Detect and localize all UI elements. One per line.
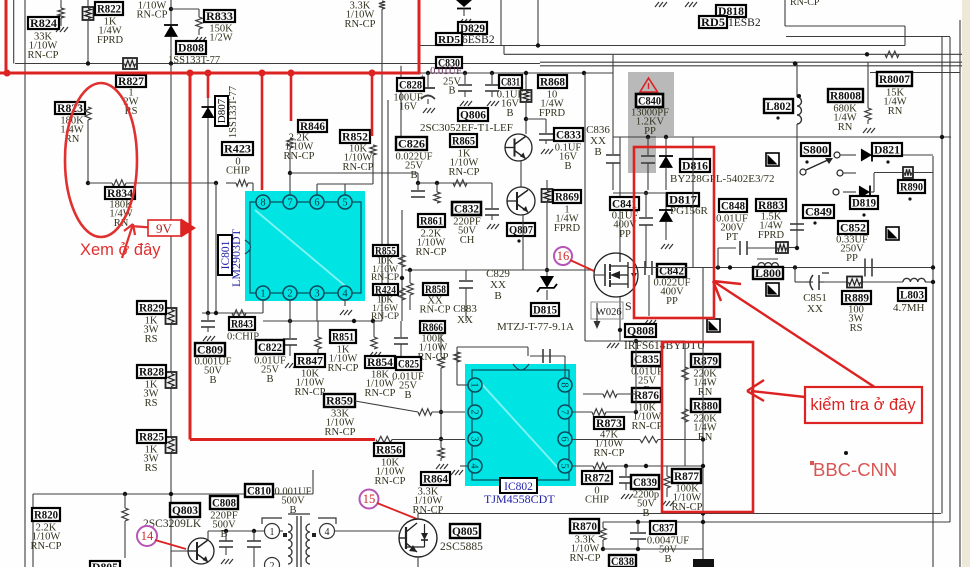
resistor R423 label box (222, 142, 253, 155)
wire pin5 right (572, 465, 593, 467)
wire vertical x171 mid (170, 64, 172, 567)
svg-text:R859: R859 (326, 396, 353, 408)
resistor R827 label box (116, 75, 146, 87)
RD5.6ESB2 label (436, 33, 462, 45)
resistor R820 symbol (124, 494, 126, 508)
svg-text:R877: R877 (674, 471, 699, 483)
svg-text:2: 2 (287, 289, 292, 300)
svg-text:RN-CP: RN-CP (790, 0, 820, 8)
resistor R846 label box (298, 120, 327, 132)
svg-text:CH: CH (460, 235, 475, 246)
svg-text:RD5: RD5 (438, 34, 461, 46)
junction x584 y73 (582, 71, 586, 75)
junction x646 y193 (644, 191, 648, 195)
red junction dot 6 (369, 70, 376, 77)
svg-text:C849: C849 (805, 207, 832, 219)
svg-text:B: B (209, 375, 216, 386)
svg-text:14: 14 (141, 529, 154, 543)
resistor R876 label box (632, 388, 661, 402)
svg-text:FPRD: FPRD (97, 35, 124, 46)
svg-text:2: 2 (468, 409, 479, 414)
svg-text:R823: R823 (57, 103, 83, 115)
svg-text:Q805: Q805 (452, 526, 478, 538)
svg-text:B: B (266, 374, 273, 385)
svg-text:D815: D815 (533, 305, 557, 317)
svg-text:RD5: RD5 (701, 17, 725, 29)
capacitor C809 label box (195, 343, 225, 356)
Q808 label box (625, 324, 656, 337)
IC802 pin 7 (558, 405, 572, 419)
inductor L803 label box (898, 288, 926, 301)
svg-text:RN: RN (888, 106, 903, 117)
svg-text:RN-CP: RN-CP (137, 10, 168, 21)
resistor R854 symbol (373, 321, 375, 337)
svg-text:CHIP: CHIP (226, 166, 250, 177)
junction x125 y494 (123, 492, 127, 496)
capacitor C838 label box (609, 555, 636, 567)
capacitor C809 symbol (207, 313, 209, 320)
wire vertical x14 (13, 0, 15, 64)
wire y26 top right (785, 25, 905, 27)
resistor R822 label box (95, 2, 123, 15)
wire bus y45 (420, 45, 905, 47)
svg-text:RN: RN (838, 122, 853, 133)
capacitor C831 label box (499, 75, 522, 88)
svg-text:C839: C839 (633, 477, 657, 489)
wire y173 (843, 172, 856, 174)
node on wire y9 (169, 7, 173, 11)
Q807 dot (517, 239, 520, 242)
switch contacts (834, 152, 840, 158)
junction x636 y341 (634, 339, 638, 343)
resistor R877 symbol (664, 476, 670, 488)
junction x547 y270 (545, 268, 549, 272)
red long vertical x190 (189, 73, 192, 440)
svg-text:R890: R890 (900, 182, 923, 194)
capacitor C851 symbol (810, 275, 813, 290)
wire top bus y66 right (540, 65, 962, 67)
diode D829 label box (458, 22, 487, 34)
resistor R824 label box (28, 17, 59, 29)
red drop x372 (371, 73, 374, 136)
resistor R847 label box (295, 354, 325, 367)
resistor above R861 (436, 183, 438, 192)
IC802 pin 3 (468, 432, 482, 446)
junction x933 y267 (931, 265, 935, 269)
svg-text:RN-CP: RN-CP (345, 19, 376, 30)
diode D807 (202, 107, 215, 118)
diode near D821 (861, 149, 872, 162)
diode D807 red stub handled later; black wire (207, 98, 209, 313)
IC802 pin 2 (468, 405, 482, 419)
switch S800 label box (801, 143, 830, 156)
svg-text:5: 5 (342, 198, 347, 209)
svg-text:R872: R872 (584, 473, 610, 485)
svg-text:R865: R865 (452, 136, 475, 148)
resistor R855 label box (373, 245, 398, 256)
svg-text:Q808: Q808 (627, 326, 654, 338)
svg-text:8: 8 (558, 382, 569, 387)
resistor R869 label box (553, 190, 581, 203)
S800 dot (805, 160, 808, 163)
svg-text:R864: R864 (423, 474, 448, 486)
svg-text:R8007: R8007 (879, 74, 910, 86)
capacitor C832 label box (452, 202, 481, 215)
transistor Q805 label box (450, 524, 480, 538)
capacitor C839 label box (631, 475, 659, 489)
wire pin7 up (289, 148, 291, 195)
svg-text:R876: R876 (634, 390, 659, 402)
svg-text:RN-CP: RN-CP (570, 553, 601, 564)
capacitor C822 label box (256, 340, 284, 354)
capacitor C825 symbol (400, 321, 402, 337)
C835 cap symbol wires (527, 347, 529, 356)
capacitor C842 label box (657, 264, 686, 277)
resistor R859 label box (324, 394, 355, 407)
resistor R861 label box (418, 214, 445, 227)
IC801 pin 6 (310, 195, 324, 209)
small black dot (844, 451, 848, 455)
red arrow to R834 (122, 224, 158, 258)
wire y172 right (874, 172, 903, 174)
half square marker 1 (766, 153, 779, 166)
Q803 base wire (171, 550, 188, 552)
junction x638 y522 (636, 520, 640, 524)
wire vertical x960 right edge (959, 20, 961, 567)
wire vertical x538 (537, 0, 539, 46)
resistor R858 label box (423, 283, 448, 295)
junction x88 y183 (86, 181, 90, 185)
svg-text:R870: R870 (572, 521, 597, 533)
svg-text:FPRD: FPRD (554, 223, 581, 234)
junction x418 y183 (416, 181, 420, 185)
D807 label box vertical (215, 96, 228, 126)
wire MOSFET gate (405, 269, 594, 271)
svg-text:RN-CP: RN-CP (295, 387, 326, 398)
resistor R827 symbol (123, 58, 137, 69)
junction x648 y137 (646, 135, 650, 139)
svg-text:R869: R869 (555, 192, 579, 204)
svg-text:R847: R847 (297, 356, 323, 368)
svg-text:1/2W: 1/2W (209, 33, 232, 44)
resistor on y54 bus (885, 51, 899, 57)
IC801 pin 2 (283, 286, 297, 300)
wire pin7 right (572, 411, 592, 413)
svg-text:0:CHIP: 0:CHIP (227, 331, 259, 342)
junction x646 y466 (644, 464, 648, 468)
inductor L802 (796, 62, 798, 97)
svg-text:RN-CP: RN-CP (416, 247, 447, 258)
wire R866 column (440, 333, 442, 357)
svg-text:RN-CP: RN-CP (343, 162, 374, 173)
red box 2 right of IC802 (662, 342, 753, 512)
resistor R854 label box (365, 356, 395, 368)
capacitor C852 symbol (864, 259, 866, 277)
wire vertical x905 (904, 26, 906, 46)
svg-text:C828: C828 (399, 80, 422, 92)
transformer pin 4 (320, 524, 335, 539)
wire vertical x382 (381, 9, 383, 321)
IC801 pin 1 (256, 286, 270, 300)
D816 label box (680, 159, 710, 172)
svg-text:L803: L803 (900, 290, 924, 302)
svg-text:FPRD: FPRD (539, 108, 566, 119)
svg-text:8: 8 (260, 198, 265, 209)
resistor R834 label box (105, 187, 135, 199)
svg-text:1: 1 (468, 382, 479, 387)
svg-text:R829: R829 (139, 303, 164, 315)
wire horizontal y522 bottom (603, 521, 950, 523)
circled 15 (360, 490, 379, 509)
svg-text:B: B (564, 161, 571, 172)
red horizontal y440 (190, 438, 375, 441)
resistor R864 symbol (438, 448, 444, 458)
diode lower (859, 186, 870, 199)
circled 16 (554, 247, 572, 265)
capacitor C849 label box (803, 205, 834, 218)
capacitor C828 (426, 71, 430, 75)
gray highlight region around C840 (628, 72, 674, 136)
red junction dot 4 (259, 70, 266, 77)
wire y494 (33, 493, 313, 495)
ground top right 1 (655, 2, 667, 7)
wire pin5 up (344, 184, 346, 195)
diode at top (456, 0, 472, 7)
wire y321 (263, 320, 382, 322)
svg-text:R827: R827 (118, 76, 144, 88)
svg-text:R824: R824 (30, 18, 57, 30)
resistor R866 label box (420, 321, 445, 333)
svg-text:16V: 16V (399, 102, 418, 113)
svg-text:RS: RS (145, 463, 158, 474)
red junction dot 5 (288, 70, 295, 77)
W026 marker (591, 302, 623, 319)
svg-text:C835: C835 (634, 354, 659, 366)
svg-text:R856: R856 (376, 445, 402, 457)
wire pin3 down (316, 300, 318, 321)
svg-text:CHIP: CHIP (585, 495, 609, 506)
resistor R856 label box (374, 443, 404, 456)
resistor near R855 (399, 255, 405, 267)
capacitor C808 label box (210, 496, 238, 509)
wire y183 right part (418, 182, 492, 184)
IC801 pin 7 (283, 195, 297, 209)
transistor Q806 (525, 73, 527, 90)
half square marker 3 (886, 227, 899, 240)
svg-text:16: 16 (557, 249, 570, 263)
wire top bus y62 right (540, 61, 962, 63)
wire switch top (840, 154, 856, 156)
svg-text:XX: XX (807, 303, 823, 315)
svg-text:RN-CP: RN-CP (284, 151, 315, 162)
svg-text:RN: RN (698, 432, 713, 443)
resistor to pin2 IC802 (418, 409, 432, 415)
svg-text:C831: C831 (501, 77, 520, 89)
svg-text:C840: C840 (638, 96, 661, 108)
wire y531 (208, 530, 264, 532)
red left arrow to box2 (747, 380, 805, 401)
svg-text:Xem ở đây: Xem ở đây (80, 241, 161, 259)
svg-text:7: 7 (558, 409, 569, 414)
resistor R868 label box (538, 75, 567, 88)
R890 dot (908, 197, 911, 200)
wire y341 (585, 340, 685, 342)
svg-text:R825: R825 (139, 432, 164, 444)
svg-text:Q807: Q807 (509, 225, 533, 237)
resistor R825 symbol (166, 437, 177, 453)
wire x401 (400, 66, 402, 137)
capacitor C810 label box (245, 484, 273, 497)
svg-text:7: 7 (287, 198, 292, 209)
red pointer from 16 (570, 260, 594, 271)
red box 1 around D816 D817 C842 (634, 147, 714, 318)
svg-text:S800: S800 (803, 145, 828, 157)
svg-text:R8008: R8008 (830, 91, 861, 103)
wire x703 long (702, 268, 704, 560)
svg-text:RN: RN (698, 387, 713, 398)
junction x171 y63 (169, 61, 173, 65)
svg-text:S: S (625, 299, 632, 313)
red drop x208 (207, 73, 210, 98)
resistor R825 label box (137, 430, 166, 443)
resistor R823 label box (55, 102, 85, 114)
svg-text:R423: R423 (224, 144, 251, 156)
D819 label box (850, 196, 878, 209)
capacitor C833 label box (554, 128, 583, 141)
svg-text:RN-CP: RN-CP (365, 388, 396, 399)
svg-text:RN-CP: RN-CP (325, 427, 356, 438)
diode D818 label box (716, 5, 746, 17)
capacitor C840 label box (636, 94, 663, 107)
svg-text:R879: R879 (693, 356, 718, 368)
resistor R828 label box (137, 365, 166, 378)
junction x626 y466 (624, 464, 628, 468)
resistor R864 label box (421, 472, 450, 485)
junction x666 y137 (664, 135, 668, 139)
svg-text:D805: D805 (92, 562, 118, 567)
wire vertical x501 (500, 0, 502, 46)
resistor R872 label box (582, 471, 612, 484)
svg-text:C833: C833 (556, 130, 581, 142)
red arrow head at C842 (713, 281, 876, 388)
svg-text:R852: R852 (342, 132, 368, 144)
small red square (810, 461, 814, 465)
red ellipse annotation (65, 83, 137, 237)
resistor R883 label box (756, 199, 786, 211)
resistor R424 label box (373, 284, 398, 295)
svg-text:R883: R883 (758, 200, 784, 212)
svg-text:6ESB2: 6ESB2 (462, 34, 495, 46)
wire y183 with R834 (88, 182, 112, 184)
junction x933 y282 (931, 280, 935, 284)
resistor R829 label box (137, 301, 166, 314)
D817 label box (667, 193, 699, 206)
wire vertical x693 (692, 137, 694, 267)
resistor R851 symbol (317, 321, 319, 337)
resistor R890 label box (898, 180, 925, 193)
capacitor C841 label box (610, 197, 639, 210)
svg-text:C852: C852 (840, 223, 866, 235)
9V callout box (148, 220, 181, 236)
scan edge strip right (962, 0, 970, 567)
IC802 pin 6 (558, 432, 572, 446)
capacitor C848 label box (719, 199, 747, 212)
wire Q807 emitter down (522, 215, 524, 270)
resistor R823 symbol on wire x88 (85, 107, 91, 120)
junction x795 y267 (793, 265, 797, 269)
svg-text:D807: D807 (216, 98, 228, 123)
resistor R820 label box (32, 508, 60, 521)
resistor R870 label box (570, 519, 599, 533)
capacitor near Q803 1 (219, 540, 233, 542)
transformer pin1 wire (280, 530, 283, 532)
junction pin7 wire y173 (288, 171, 292, 175)
red bus horizontal (0, 72, 419, 75)
capacitor at x492 (490, 71, 494, 75)
junction x867 y54 (865, 52, 869, 56)
capacitor below pin2 (283, 338, 297, 340)
svg-text:4: 4 (342, 289, 348, 300)
transformer core (296, 516, 298, 567)
resistor R851 label box (330, 330, 356, 343)
svg-text:C832: C832 (454, 204, 479, 216)
transformer pin4 wire (334, 530, 399, 532)
capacitor C883 symbol (465, 270, 467, 280)
wire horizontal y513 bottom (418, 513, 941, 515)
svg-text:R846: R846 (300, 121, 325, 133)
svg-text:PP: PP (619, 229, 631, 240)
svg-text:1SS133T-77: 1SS133T-77 (168, 55, 220, 66)
junction x527 y119 (524, 117, 528, 121)
red bus vertical right (418, 0, 421, 75)
junction x603 y549 (601, 547, 605, 551)
resistor R843 symbol (232, 310, 246, 316)
junction x441 y439 (439, 437, 443, 441)
svg-text:R866: R866 (422, 322, 443, 334)
junction x730 y266 (728, 265, 732, 269)
svg-text:RN-CP: RN-CP (594, 448, 625, 459)
capacitor right of C832 (491, 183, 493, 208)
svg-text:D821: D821 (874, 145, 900, 157)
IC801 pin 3 (310, 286, 324, 300)
svg-text:XX: XX (457, 314, 473, 326)
svg-text:2: 2 (270, 561, 275, 567)
kiem tra o day callout box (805, 387, 922, 423)
svg-text:B: B (494, 290, 501, 302)
wire pin1 IC802 (457, 384, 468, 386)
wire pin4 IC802 (460, 465, 468, 467)
ground below R824 resistor (56, 27, 68, 32)
svg-text:L802: L802 (766, 101, 791, 113)
svg-text:R861: R861 (420, 216, 443, 228)
resistor R843 label box (229, 317, 255, 330)
wire pin6 right (572, 439, 640, 441)
half square near Q808 (707, 319, 720, 332)
wire y549 (603, 548, 703, 550)
svg-text:RS: RS (145, 334, 158, 345)
svg-text:RN-CP: RN-CP (632, 421, 663, 432)
zener diode D815 (540, 276, 554, 288)
svg-text:R854: R854 (367, 357, 393, 369)
svg-text:B: B (594, 146, 601, 158)
junction x703 y522 (701, 520, 705, 524)
svg-text:R868: R868 (540, 77, 565, 89)
wire C841 column (619, 137, 621, 253)
resistor R865 label box (450, 134, 477, 147)
capacitor C842 symbol (644, 261, 646, 275)
IC801 pin 4 (338, 286, 352, 300)
resistor R852 symbol (370, 145, 376, 155)
